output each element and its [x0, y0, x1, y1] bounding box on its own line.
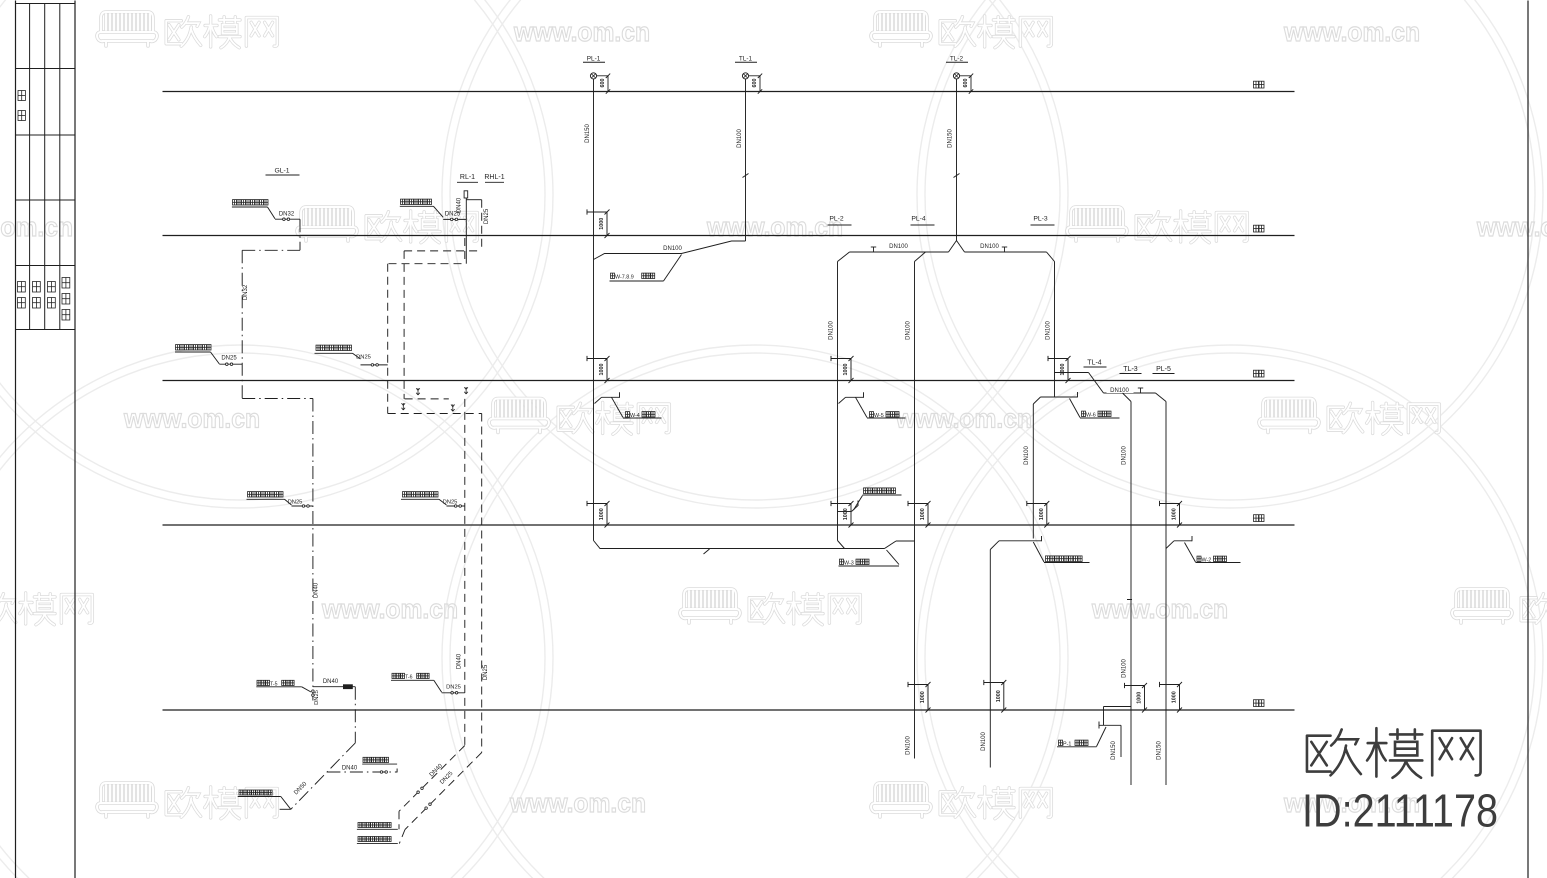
TL-1 size DN100	[737, 129, 743, 148]
riser RL-1 descend	[464, 399, 466, 746]
stack TL-1 head (label+vent cap)	[735, 56, 762, 94]
size DN40 (RL diagonal)	[429, 763, 445, 779]
label RHL-1	[484, 174, 504, 182]
svg-text:DN25: DN25	[446, 685, 461, 691]
TL-1 offset into run	[594, 241, 746, 260]
size DN25 (RL-1 2F)	[356, 355, 371, 361]
RHL-1 jog	[404, 250, 482, 252]
label RL-1	[457, 174, 478, 182]
svg-text:1000: 1000	[1172, 508, 1178, 520]
waste run below L4	[594, 541, 915, 549]
svg-text:P-1: P-1	[1063, 742, 1071, 748]
svg-text:600: 600	[600, 79, 606, 88]
svg-text:DN100: DN100	[1046, 321, 1052, 340]
TL-3 size DN100 (lower)	[1122, 659, 1128, 678]
svg-text:T-6: T-6	[405, 675, 413, 681]
watermark sofa logo at 5,608	[0, 589, 92, 625]
branch label W-7 8 9	[610, 255, 682, 282]
svg-text:www.om.cn: www.om.cn	[509, 788, 646, 818]
TL-2 Y split	[949, 241, 965, 253]
svg-text:W-5: W-5	[874, 413, 884, 419]
PL-2 elbow into run	[838, 541, 845, 549]
svg-text:W-7.8.9: W-7.8.9	[615, 275, 634, 281]
label PL-3	[1031, 216, 1055, 226]
flow tick on run	[704, 549, 710, 554]
svg-text:www.om.cn: www.om.cn	[706, 212, 843, 242]
title block right edge	[74, 1, 76, 878]
floor label L2	[1254, 225, 1265, 232]
svg-text:TL-1: TL-1	[739, 56, 753, 63]
watermark sofa logo at 582,417.5	[489, 399, 669, 435]
label PL-4	[911, 216, 935, 226]
GL-1 1F valve	[292, 505, 313, 508]
TL-3 size DN150	[1111, 741, 1117, 760]
svg-text:1000: 1000	[843, 508, 849, 520]
PL-1 check port above L2	[587, 209, 610, 238]
svg-text:1000: 1000	[1060, 364, 1066, 376]
watermark sofa logo at 964,31	[871, 12, 1051, 48]
size DN25 (GL-1 1F)	[288, 500, 303, 506]
RL-1 3F valve	[443, 218, 466, 221]
PL-1 size DN150	[585, 124, 591, 143]
svg-text:DN100: DN100	[737, 129, 743, 148]
svg-text:W-4: W-4	[630, 413, 640, 419]
GL-1 jog	[242, 249, 300, 251]
GL-1 offset below L3	[242, 398, 313, 400]
svg-text:DN150: DN150	[948, 129, 954, 148]
svg-text:600: 600	[963, 79, 969, 88]
svg-text:DN32: DN32	[279, 212, 295, 218]
svg-text:PL-1: PL-1	[587, 56, 601, 63]
svg-text:1000: 1000	[996, 690, 1002, 702]
RHL-1 header	[466, 199, 481, 201]
riser PL-2	[837, 262, 839, 541]
svg-text:W-3: W-3	[844, 561, 854, 567]
svg-text:DN100: DN100	[663, 246, 682, 252]
watermark circle at 240,195	[0, 0, 553, 508]
takeoff to PL-4	[915, 252, 926, 262]
stack PL-1 head (label+vent cap)	[583, 56, 610, 94]
branch label 2F supply (RL-1)	[315, 345, 361, 359]
PL-3 check port above L3	[1048, 356, 1071, 383]
floor label roof	[1254, 81, 1265, 88]
riser RHL-1 top	[481, 200, 483, 251]
size DN32 (GL-1 top)	[279, 212, 295, 218]
svg-text:DN40: DN40	[456, 653, 462, 669]
svg-text:DN100: DN100	[1122, 446, 1128, 465]
watermark sofa logo at 1545,608	[1452, 589, 1547, 625]
RL-1 size DN40	[456, 197, 462, 213]
svg-text:TL-4: TL-4	[1087, 360, 1102, 367]
size DN25 (T-6 branch)	[446, 685, 461, 691]
watermark circle at 1230,658	[917, 345, 1543, 878]
RL-1 T-6 valve	[442, 692, 465, 695]
TL-1 break tick	[743, 174, 749, 178]
size DN25 (GL-1 stub)	[314, 690, 320, 705]
watermark sofa logo at 1160,226	[1067, 207, 1247, 243]
svg-text:www.om.cn: www.om.cn	[1476, 212, 1547, 242]
size DN40 (T-1 branch)	[342, 766, 358, 772]
PL-5 size DN150	[1157, 741, 1163, 760]
branch label B1 T-6 supply	[391, 673, 442, 692]
PL-2 check port above L3	[831, 356, 854, 383]
TL-2 break tick	[954, 174, 960, 178]
riser TL-2	[956, 79, 958, 241]
riser RL-1 (L2-L3)	[387, 264, 389, 414]
svg-text:DN100: DN100	[889, 244, 908, 250]
svg-text:1000: 1000	[920, 691, 926, 703]
svg-text:1000: 1000	[843, 364, 849, 376]
size DN50 (GL-1 diagonal)	[293, 781, 309, 797]
PL-4 size DN100 (upper)	[906, 321, 912, 340]
GL-1 end stub	[280, 808, 291, 810]
title block row lines	[16, 4, 76, 330]
vent tick on right run	[1002, 247, 1007, 252]
svg-text:DN100: DN100	[1110, 388, 1129, 394]
svg-text:W-2: W-2	[1201, 558, 1211, 564]
svg-text:PL-4: PL-4	[911, 216, 926, 223]
PL-5 check port above L5	[1160, 682, 1183, 713]
PL-2 branch W-5	[839, 392, 906, 419]
label from hot water pump room b	[357, 837, 398, 844]
svg-text:DN150: DN150	[1111, 741, 1117, 760]
watermark circle at 240,658	[0, 345, 553, 878]
title block cell text (row 2)	[18, 91, 25, 121]
sheet left border	[15, 1, 17, 878]
PL-3 cont size DN100	[1024, 446, 1030, 465]
fixture symbol b	[464, 387, 468, 394]
TL-3 pump connection	[1099, 707, 1131, 758]
svg-text:TL-3: TL-3	[1123, 366, 1138, 373]
GL-1 2F valve	[219, 363, 242, 366]
label PL-2	[828, 216, 852, 226]
run TL-2 to PL-3	[965, 252, 1055, 262]
svg-text:DN25: DN25	[221, 356, 237, 362]
svg-text:DN100: DN100	[980, 244, 999, 250]
label from domestic pump room (GL-1)	[238, 790, 291, 809]
svg-text:www.om.cn: www.om.cn	[513, 17, 650, 47]
TL-4 branch run	[1055, 373, 1156, 394]
RL-1 2F valve	[361, 364, 388, 367]
watermark circle at 755,658	[442, 345, 1068, 878]
basement riser check above L5	[984, 680, 1007, 713]
svg-text:DN150: DN150	[1157, 741, 1163, 760]
PL-4 size DN100 (lower)	[906, 736, 912, 755]
riser TL-3	[1130, 402, 1132, 786]
riser to basement (from PL-3)	[989, 550, 991, 768]
riser PL-3 continuation	[1032, 404, 1034, 539]
riser RHL-1 (L2-L3)	[403, 251, 405, 399]
floor label L4	[1254, 515, 1265, 522]
branch label W-3	[839, 550, 900, 567]
branch label W-2	[1185, 543, 1241, 564]
svg-text:www.om.cn: www.om.cn	[123, 404, 260, 434]
size DN40 (basement run)	[323, 679, 339, 685]
branch label 1F fixture supply	[362, 757, 397, 764]
svg-text:PL-5: PL-5	[1156, 366, 1171, 373]
svg-text:www.om.cn: www.om.cn	[1283, 17, 1420, 47]
size DN25 (RL-1 1F)	[443, 500, 458, 506]
PL-1 check port above L4	[587, 501, 610, 528]
watermark sofa logo at 190,31	[97, 12, 277, 48]
branch label 3F supply (GL-1)	[232, 200, 275, 219]
watermark sofa logo at 390,226	[297, 207, 477, 243]
watermark circle at 755,195	[442, 0, 1068, 508]
branch label B1 T-5 supply	[256, 680, 311, 692]
svg-text:1000: 1000	[599, 508, 605, 520]
svg-text:1000: 1000	[1039, 508, 1045, 520]
GL-1 top drop	[299, 219, 301, 250]
svg-text:W-6: W-6	[1086, 413, 1096, 419]
riser TL-1	[745, 79, 747, 241]
PL-4 check port above L4	[908, 501, 931, 528]
svg-text:DN25: DN25	[356, 355, 371, 361]
RHL-1 size DN25 (lower)	[483, 664, 489, 680]
svg-text:600: 600	[752, 79, 758, 88]
PL-4 check port above L5	[908, 682, 931, 713]
RL distribution below L3 (a)	[405, 398, 449, 400]
GL-1 size DN32	[243, 284, 249, 300]
svg-text:DN100: DN100	[981, 732, 987, 751]
PL-2 size DN100	[829, 321, 835, 340]
PL-2 cleanout stub	[838, 488, 902, 512]
RL-1 diagonal to pump room	[399, 746, 465, 830]
svg-text:DN32: DN32	[243, 284, 249, 300]
svg-text:DN25: DN25	[288, 500, 303, 506]
TL-3 size DN100 (mid)	[1122, 446, 1128, 465]
automatic air vent (RL-1)	[464, 191, 468, 198]
watermark sofa logo at 964,802	[871, 783, 1051, 819]
GL-1 riser valve	[312, 690, 315, 697]
svg-text:DN100: DN100	[829, 321, 835, 340]
svg-text:1000: 1000	[920, 508, 926, 520]
watermark circle at 1230,195	[917, 0, 1543, 508]
GL-1 basement drop	[354, 687, 356, 743]
floor line L2	[163, 235, 1295, 237]
fixture symbol c	[402, 403, 406, 410]
floor line L5	[163, 709, 1295, 711]
branch label P-1	[1057, 727, 1106, 748]
svg-text:DN25: DN25	[314, 690, 320, 705]
run label DN100 (TL-2 left)	[889, 244, 908, 250]
vent tick on left run	[871, 247, 876, 252]
riser PL-5	[1165, 402, 1167, 786]
title block discipline text (row 6)	[18, 278, 70, 321]
title block column lines	[30, 4, 60, 330]
PL-3 cont check above L4	[1027, 501, 1050, 528]
RL-1 size DN40 (lower)	[456, 653, 462, 669]
floor label L3	[1254, 370, 1265, 377]
svg-text:www.om.cn: www.om.cn	[321, 594, 458, 624]
RL distribution below L3 (b)	[388, 413, 482, 415]
svg-text:DN100: DN100	[1122, 659, 1128, 678]
basement riser size DN100	[981, 732, 987, 751]
svg-text:DN25: DN25	[483, 664, 489, 680]
watermark sofa logo at 190,802	[97, 783, 277, 819]
size DN25 (RL-1 3F)	[445, 212, 461, 218]
run label DN100 (TL-4 run)	[1107, 386, 1134, 394]
svg-text:TL-2: TL-2	[950, 56, 964, 63]
TL-3 flow tick	[1127, 599, 1132, 601]
svg-text:DN40: DN40	[314, 582, 320, 598]
svg-text:RHL-1: RHL-1	[484, 174, 504, 181]
size DN25 (RHL diagonal)	[439, 770, 455, 786]
RL-1 jog	[389, 263, 465, 265]
branch T-1 on diagonal	[327, 769, 397, 774]
stack TL-2 head (label+vent cap)	[946, 56, 973, 94]
riser RHL-1 descend	[481, 414, 483, 753]
svg-text:DN40: DN40	[342, 766, 358, 772]
floor label L5	[1254, 700, 1265, 707]
PL-3 size DN100	[1046, 321, 1052, 340]
PL-2 check port above L4	[831, 501, 854, 528]
GL-1 diagonal to pump room	[291, 743, 356, 809]
svg-text:PL-2: PL-2	[829, 216, 844, 223]
svg-text:DN100: DN100	[906, 321, 912, 340]
TL-2 size DN150	[948, 129, 954, 148]
run label DN100 (TL-2 right)	[980, 244, 999, 250]
branch label 1F supply (GL-1)	[247, 492, 292, 505]
run TL-2 to PL-2	[838, 252, 949, 262]
label TL-4	[1084, 360, 1107, 368]
fixture symbol d	[451, 404, 455, 411]
vent tick on TL-4 run	[1138, 388, 1143, 393]
svg-text:DN25: DN25	[484, 208, 490, 224]
site logo OMO text	[1307, 728, 1481, 778]
PL-1 check port above L3	[587, 356, 610, 383]
watermark sofa logo at 1352,417.5	[1259, 399, 1439, 435]
riser PL-1	[593, 79, 595, 541]
branch label 2F supply (GL-1)	[175, 345, 219, 364]
riser GL-1 (L2-L3)	[241, 250, 243, 398]
riser GL-1 (L3-B1)	[312, 399, 314, 701]
branch label sump discharge	[1033, 542, 1089, 563]
sheet right border	[1527, 1, 1529, 878]
svg-text:www.om.cn: www.om.cn	[1091, 594, 1228, 624]
riser PL-3	[1054, 262, 1056, 398]
branch label 3F supply (RL-1)	[400, 199, 443, 217]
floor line L3	[163, 380, 1295, 382]
size DN25 (GL-1 2F)	[221, 356, 237, 362]
PL-3 basement junction	[990, 536, 1041, 550]
takeoff to PL-5	[1156, 393, 1167, 402]
PL-5 check port above L4	[1160, 501, 1183, 528]
GL-1 size DN40	[314, 582, 320, 598]
RL-1 1F valve	[447, 505, 465, 508]
svg-text:1000: 1000	[599, 218, 605, 230]
svg-text:RL-1: RL-1	[460, 174, 475, 181]
label GL-1	[266, 168, 300, 176]
floor line roof	[163, 91, 1295, 93]
run label DN100 (left)	[663, 246, 682, 252]
svg-text:DN100: DN100	[1024, 446, 1030, 465]
branch label W-6	[1070, 399, 1120, 419]
svg-text:DN25: DN25	[445, 212, 461, 218]
svg-text:www.om.cn: www.om.cn	[0, 212, 73, 242]
GL-1 basement run	[313, 684, 355, 689]
svg-text:www.om.cn: www.om.cn	[895, 404, 1032, 434]
svg-text:DN100: DN100	[906, 736, 912, 755]
floor line L4	[163, 524, 1295, 526]
RHL-1 size DN25	[484, 208, 490, 224]
svg-text:GL-1: GL-1	[274, 168, 289, 175]
PL-3 junction below L3	[1033, 392, 1077, 404]
takeoff to TL-3	[1123, 393, 1132, 402]
GL-1 top valve	[275, 218, 300, 221]
riser PL-4	[914, 262, 916, 759]
RL-1 drop	[464, 238, 466, 264]
svg-text:DN150: DN150	[585, 124, 591, 143]
PL-1 branch W-4	[595, 392, 662, 419]
watermark sofa logo at 773,608	[680, 589, 860, 625]
svg-text:1000: 1000	[1172, 691, 1178, 703]
RHL-1 diagonal to pump room	[399, 753, 481, 844]
riser RL-1 top	[465, 198, 467, 264]
svg-text:1000: 1000	[599, 364, 605, 376]
svg-text:ID:2111178: ID:2111178	[1302, 785, 1498, 837]
label from hot water pump room a	[357, 823, 398, 830]
svg-text:DN40: DN40	[323, 679, 339, 685]
label PL-5	[1153, 366, 1175, 374]
svg-text:1000: 1000	[1137, 692, 1143, 704]
label TL-3	[1120, 366, 1142, 374]
svg-text:PL-3: PL-3	[1033, 216, 1048, 223]
branch label 1F supply (RL-1)	[401, 492, 447, 505]
fixture symbol a	[416, 388, 420, 395]
PL-5 takeoff below L4	[1166, 536, 1192, 549]
TL-3 check port above L5	[1125, 683, 1148, 713]
